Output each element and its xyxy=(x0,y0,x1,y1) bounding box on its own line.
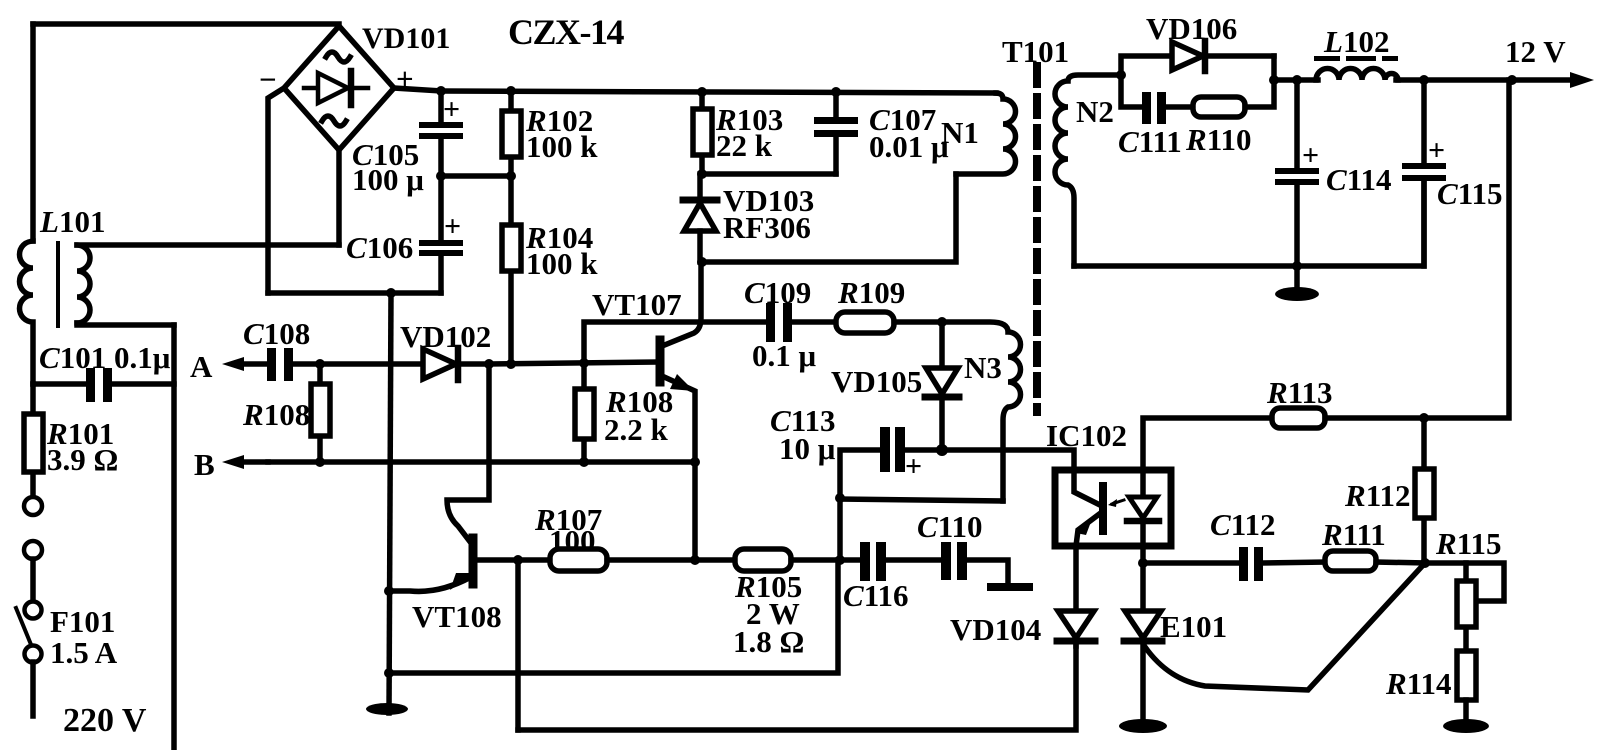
svg-text:VT107: VT107 xyxy=(592,287,682,322)
ground E101 xyxy=(1119,719,1167,733)
wire C111 branch left xyxy=(1121,75,1144,107)
svg-text:R110: R110 xyxy=(1185,122,1251,157)
wire node down to R105 C116 junction xyxy=(837,498,843,560)
node branch output xyxy=(1269,75,1279,85)
svg-text:N3: N3 xyxy=(964,350,1002,385)
label C106 plus xyxy=(444,210,461,243)
svg-text:IC102: IC102 xyxy=(1046,418,1127,453)
svg-text:C106: C106 xyxy=(346,230,413,265)
svg-text:RF306: RF306 xyxy=(723,210,811,245)
svg-text:CZX-14: CZX-14 xyxy=(508,12,624,52)
node VT108 base R107 xyxy=(513,555,523,565)
wire HV rail xyxy=(441,91,996,93)
svg-text:L102: L102 xyxy=(1323,24,1389,59)
capacitor C109 plates xyxy=(766,303,792,342)
label R103 22k xyxy=(715,102,783,163)
label C114 xyxy=(1326,162,1391,197)
wire chassis rail vertical xyxy=(389,293,391,713)
svg-text:N1: N1 xyxy=(941,115,979,150)
transistor VT108 collector xyxy=(447,364,489,543)
ground chassis rail xyxy=(366,703,408,715)
wire bridge AC bottom vertex down xyxy=(336,150,342,245)
wire E101 anode to divider tap xyxy=(1145,563,1425,690)
wire C114 ground stem xyxy=(1294,266,1300,292)
capacitor C114 leads xyxy=(1294,80,1300,266)
resistor R102 leads xyxy=(508,91,514,176)
wire B line xyxy=(268,459,695,465)
label C113 plus xyxy=(905,450,922,483)
svg-text:F101: F101 xyxy=(50,604,115,639)
svg-text:VD104: VD104 xyxy=(950,612,1041,647)
svg-text:R109: R109 xyxy=(837,275,905,310)
wire R109 to N3 VD105 node xyxy=(894,319,942,325)
fuse F101 blade xyxy=(16,608,32,647)
node N2 top VD106 branch xyxy=(1116,70,1126,80)
capacitor C106 leads xyxy=(438,176,444,293)
svg-text:E101: E101 xyxy=(1160,609,1227,644)
node HV rail C107 xyxy=(831,87,841,97)
capacitor C115 leads xyxy=(1421,80,1427,266)
label C105 plus xyxy=(443,93,460,126)
node R113 R112 xyxy=(1419,413,1429,423)
svg-text:0.1 μ: 0.1 μ xyxy=(752,338,817,373)
bridge VD101 AC tilde top xyxy=(326,52,350,62)
capacitor C101 wire xyxy=(33,381,174,387)
svg-text:+: + xyxy=(444,210,461,243)
label VD102 xyxy=(400,319,491,354)
wire C110 to ground stub xyxy=(967,560,1008,583)
label N3 xyxy=(964,350,1002,385)
ground R114 xyxy=(1443,719,1489,733)
label VD101 xyxy=(362,22,450,55)
label R105 2W 1.8ohm xyxy=(733,569,804,659)
svg-text:+: + xyxy=(905,450,922,483)
ground C114 xyxy=(1275,287,1319,301)
svg-text:L101: L101 xyxy=(39,204,105,239)
diode VD103 xyxy=(683,174,717,262)
fuse F101 terminal circle 4 xyxy=(25,646,42,663)
label R108b 2.2k xyxy=(604,384,673,447)
wire C112 to R111 xyxy=(1263,562,1325,563)
node A line R108b C109 branch xyxy=(579,358,589,368)
wire C111 to R110 xyxy=(1166,104,1193,110)
node HV rail C105 xyxy=(436,86,446,96)
label R115 xyxy=(1435,526,1501,561)
wire between switch circles xyxy=(30,559,36,601)
transistor VT107 emitter xyxy=(662,374,695,560)
capacitor C105 leads xyxy=(438,91,444,176)
wire bridge plus to HV rail xyxy=(394,88,441,91)
label plus terminal xyxy=(396,61,414,96)
wire R114 to ground xyxy=(1463,700,1469,719)
resistor R102 body xyxy=(502,111,521,157)
bridge VD101 inner diode xyxy=(304,71,368,105)
label L101 xyxy=(39,204,105,239)
wire R105 to C116 xyxy=(791,557,860,563)
node A line R108a top xyxy=(315,359,325,369)
node C115 top xyxy=(1419,75,1429,85)
capacitor C106 plates xyxy=(419,240,463,256)
svg-text:R108: R108 xyxy=(242,397,310,432)
capacitor C114 plates xyxy=(1275,168,1319,185)
node A line VT108 collector xyxy=(484,359,494,369)
svg-text:100 μ: 100 μ xyxy=(352,162,424,197)
wire base node to R107 xyxy=(518,557,550,563)
resistor R115 leads xyxy=(1463,563,1469,651)
ground C110 bar xyxy=(987,583,1033,591)
svg-text:N2: N2 xyxy=(1076,94,1114,129)
resistor R108a leads xyxy=(317,364,323,462)
label R101 3.9ohm xyxy=(46,416,118,477)
resistor R105 body xyxy=(735,549,791,571)
resistor R109 body xyxy=(836,312,894,333)
wire IC102 led cathode to E101 xyxy=(1140,546,1146,609)
wire fuse to bottom xyxy=(30,662,36,716)
label L102 xyxy=(1323,24,1389,59)
svg-text:C101 0.1μ: C101 0.1μ xyxy=(39,340,171,375)
capacitor C110 plates xyxy=(941,542,967,580)
diode VD104 zener xyxy=(1057,611,1095,646)
svg-text:100: 100 xyxy=(549,523,596,558)
label C110 xyxy=(917,509,982,544)
transistor VT108 base bar xyxy=(469,538,478,584)
label R102 100k xyxy=(525,103,598,164)
inductor L102 xyxy=(1316,69,1398,81)
svg-text:B: B xyxy=(194,447,215,482)
label C105 100u xyxy=(352,137,424,197)
label C106 xyxy=(346,230,413,265)
wire left mains rail upper xyxy=(30,24,36,241)
optocoupler IC102 led xyxy=(1127,470,1159,546)
label C109 0.1u xyxy=(744,275,817,373)
label A xyxy=(190,349,213,384)
resistor R115 body xyxy=(1457,581,1476,627)
svg-text:1.5 A: 1.5 A xyxy=(50,635,118,670)
node E101 C112 xyxy=(1138,558,1148,568)
capacitor C107 leads xyxy=(833,92,839,174)
node A terminal arrow xyxy=(222,357,268,371)
node negative rail to chassis rail xyxy=(386,288,396,298)
label VD106 xyxy=(1146,11,1237,46)
node HV rail R102 xyxy=(506,86,516,96)
svg-text:VD102: VD102 xyxy=(400,319,491,354)
label C114 plus xyxy=(1302,139,1319,172)
label N2 xyxy=(1076,94,1114,129)
resistor R103 leads xyxy=(699,92,705,174)
diode VD105 xyxy=(925,322,959,449)
inductor L101 right winding xyxy=(77,245,90,323)
svg-text:0.01 μ: 0.01 μ xyxy=(869,129,949,164)
node midpoint right xyxy=(506,171,516,181)
node chassis rail bottom wire xyxy=(384,668,394,678)
label R112 xyxy=(1344,478,1410,513)
wire A line VD102 to VT107 base xyxy=(489,362,656,364)
node emitter VT107 joins R107 R105 wire xyxy=(690,555,700,565)
wire IC102 emitter to VD104 xyxy=(1073,546,1079,609)
node chassis rail VT108 emitter xyxy=(384,586,394,596)
wire VD106 branch top xyxy=(1121,56,1173,75)
rheostat R115 wiper loop xyxy=(1425,563,1504,601)
svg-text:A: A xyxy=(190,349,213,384)
svg-text:1.8 Ω: 1.8 Ω xyxy=(733,624,804,659)
resistor R101 body xyxy=(24,414,43,472)
transistor VT108 base lead xyxy=(477,557,518,563)
svg-text:+: + xyxy=(1428,134,1445,167)
svg-text:+: + xyxy=(443,93,460,126)
label C107 0.01u xyxy=(869,102,949,164)
label minus terminal xyxy=(259,62,277,97)
wire C113 left to lower node xyxy=(840,450,880,498)
wire L102 to 12V arrow xyxy=(1396,77,1570,83)
capacitor C112 plates xyxy=(1239,547,1263,581)
transformer T101 dashed core line xyxy=(1033,66,1041,412)
capacitor C111 plates xyxy=(1142,92,1166,124)
resistor R110 body xyxy=(1193,97,1245,117)
wire 12V rail xyxy=(1274,77,1318,83)
capacitor C116 plates xyxy=(860,542,886,581)
resistor R108b body xyxy=(575,389,594,439)
label R114 xyxy=(1385,666,1451,701)
inductor L101 core xyxy=(56,243,60,326)
svg-text:R112: R112 xyxy=(1344,478,1410,513)
node HV rail R103 xyxy=(697,87,707,97)
bridge rectifier VD101 diamond xyxy=(284,26,394,150)
label C115 plus xyxy=(1428,134,1445,167)
resistor R103 body xyxy=(693,109,712,155)
transformer T101 winding N1 xyxy=(956,93,1016,174)
svg-text:220 V: 220 V xyxy=(63,702,147,739)
label B xyxy=(194,447,215,482)
node B line VT107 emitter xyxy=(690,457,700,467)
svg-text:VD101: VD101 xyxy=(362,22,450,55)
label E101 xyxy=(1160,609,1227,644)
svg-text:R114: R114 xyxy=(1385,666,1451,701)
resistor R101 leads xyxy=(30,384,36,497)
node C114 bottom xyxy=(1292,261,1302,271)
wire R110 to branch right xyxy=(1245,56,1274,107)
diode VD106 xyxy=(1172,41,1274,71)
label R107 100 xyxy=(534,502,602,558)
wire C109 to R109 xyxy=(792,319,836,325)
svg-text:C114: C114 xyxy=(1326,162,1391,197)
resistor R108b leads xyxy=(581,363,587,462)
svg-text:R111: R111 xyxy=(1321,517,1386,552)
wire N3 bottom to node xyxy=(840,499,1003,501)
label R104 100k xyxy=(525,220,598,281)
transformer T101 winding N2 xyxy=(1055,75,1121,266)
node R105 C116 junction xyxy=(835,555,845,565)
wire L101 right winding bottom to right mains rail xyxy=(77,323,174,325)
label VD105 xyxy=(831,364,922,399)
capacitor C115 plates xyxy=(1402,163,1446,181)
wire negative rail horizontal xyxy=(268,290,441,296)
label C101 0.1u xyxy=(39,340,171,375)
transistor VT107 collector xyxy=(662,262,701,346)
label F101 1.5A xyxy=(50,604,118,670)
node R109 N3 VD105 xyxy=(937,317,947,327)
node midpoint left xyxy=(436,171,446,181)
optocoupler IC102 box xyxy=(1055,470,1171,546)
svg-text:C108: C108 xyxy=(243,316,310,351)
wire R113 line from IC102 led anode xyxy=(1143,418,1272,470)
transformer T101 winding N3 xyxy=(942,322,1021,501)
label 12 V xyxy=(1505,34,1566,69)
node VD103 anode junction xyxy=(697,257,707,267)
label R108a xyxy=(242,397,310,432)
wire VT108 base down xyxy=(515,560,521,730)
wire C109 branch from base node xyxy=(584,322,768,363)
svg-text:VD106: VD106 xyxy=(1146,11,1237,46)
wire C116 to C110 xyxy=(886,557,941,563)
label 220 V xyxy=(63,702,147,739)
wire bottom long to VD104 xyxy=(518,646,1076,730)
wire R113 to 12V branch xyxy=(1325,80,1509,418)
resistor R104 leads xyxy=(508,176,514,364)
label VT107 xyxy=(592,287,682,322)
label R113 xyxy=(1266,375,1332,410)
label N1 xyxy=(941,115,979,150)
switch terminal circle 1 xyxy=(24,497,42,515)
wire C113 right to VD105 node to IC102 xyxy=(905,450,1074,470)
svg-text:R115: R115 xyxy=(1435,526,1501,561)
label T101 xyxy=(1002,34,1069,69)
resistor R111 body xyxy=(1325,551,1376,571)
label R110 xyxy=(1185,122,1251,157)
wire A line C108 to VD102 xyxy=(293,361,423,367)
label R109 xyxy=(837,275,905,310)
wire R111 to tap node xyxy=(1376,562,1425,563)
wire mains top from left rail to bridge AC top xyxy=(33,21,339,27)
wire C112 line xyxy=(1143,560,1241,566)
svg-text:R113: R113 xyxy=(1266,375,1332,410)
resistor R114 body xyxy=(1457,651,1476,700)
resistor R112 body xyxy=(1415,469,1434,518)
svg-text:C111: C111 xyxy=(1118,124,1182,159)
wire R107 to R105 xyxy=(607,557,735,563)
svg-text:12 V: 12 V xyxy=(1505,34,1566,69)
label IC102 xyxy=(1046,418,1127,453)
svg-text:100 k: 100 k xyxy=(526,129,598,164)
wire C105 C106 midpoint to R102 R104 midpoint xyxy=(441,173,511,179)
capacitor C101 plates xyxy=(86,368,112,402)
wire bottom return rail to R105 junction xyxy=(389,560,838,673)
wire N2 bottom return xyxy=(1074,181,1424,266)
node B line R108a bottom xyxy=(315,457,325,467)
capacitor C105 plates xyxy=(419,122,463,139)
node C114 top xyxy=(1292,75,1302,85)
resistor R104 body xyxy=(502,225,521,271)
label CZX-14 xyxy=(508,12,624,52)
wire N1 bottom to VD103 anode xyxy=(702,174,956,262)
label L102 underline dashes xyxy=(1314,56,1398,61)
wire right mains rail xyxy=(171,325,177,748)
label R111 xyxy=(1321,517,1386,552)
svg-text:C112: C112 xyxy=(1210,507,1275,542)
capacitor C108 plates xyxy=(267,348,293,381)
label C112 xyxy=(1210,507,1275,542)
svg-text:100 k: 100 k xyxy=(526,246,598,281)
node B terminal arrow xyxy=(222,455,268,469)
label VT108 xyxy=(412,599,502,634)
wire R103 bottom to C107 bottom xyxy=(702,171,836,177)
svg-text:C115: C115 xyxy=(1437,176,1502,211)
svg-text:10 μ: 10 μ xyxy=(779,431,836,466)
switch terminal circle 2 xyxy=(24,541,42,559)
node VD105 C113 xyxy=(936,444,948,456)
svg-text:2.2 k: 2.2 k xyxy=(604,412,669,447)
svg-text:22 k: 22 k xyxy=(716,128,773,163)
node 12V R113 branch xyxy=(1507,75,1517,85)
transistor VT107 base bar xyxy=(656,340,665,382)
wire L101 right winding top to bridge AC bottom xyxy=(77,242,339,248)
label C111 xyxy=(1118,124,1182,159)
svg-text:VT108: VT108 xyxy=(412,599,502,634)
optocoupler IC102 light arrows xyxy=(1108,499,1124,507)
bridge VD101 AC tilde bottom xyxy=(322,116,346,126)
inductor L101 left winding xyxy=(20,241,34,384)
transistor VT108 emitter xyxy=(389,573,475,591)
svg-text:3.9 Ω: 3.9 Ω xyxy=(47,442,118,477)
fuse F101 terminal circle 3 xyxy=(25,602,42,619)
wire bridge minus to negative rail xyxy=(268,88,284,293)
resistor R108a body xyxy=(311,384,330,436)
label C108 xyxy=(243,316,310,351)
resistor R112 leads xyxy=(1421,418,1427,563)
resistor R107 body xyxy=(550,549,607,571)
capacitor C113 plates xyxy=(880,427,905,472)
svg-text:C110: C110 xyxy=(917,509,982,544)
svg-text:C109: C109 xyxy=(744,275,811,310)
node divider tap xyxy=(1420,558,1430,568)
svg-text:VD105: VD105 xyxy=(831,364,922,399)
label VD104 xyxy=(950,612,1041,647)
svg-text:T101: T101 xyxy=(1002,34,1069,69)
label VD103 RF306 xyxy=(723,183,814,245)
diode VD102 xyxy=(423,348,489,380)
label C116 xyxy=(843,578,908,613)
node A line R104 bottom xyxy=(506,359,516,369)
node B line R108b bottom xyxy=(579,457,589,467)
node 12V output arrow xyxy=(1570,72,1594,88)
label C115 xyxy=(1437,176,1502,211)
resistor R113 body xyxy=(1272,408,1325,428)
svg-text:C116: C116 xyxy=(843,578,908,613)
label C113 10u xyxy=(770,403,836,466)
diode E101 reference xyxy=(1124,611,1162,719)
capacitor C107 plates xyxy=(814,117,858,137)
optocoupler IC102 phototransistor xyxy=(1074,470,1103,546)
svg-text:+: + xyxy=(1302,139,1319,172)
node C113 N3 R105 junction xyxy=(835,493,845,503)
node R103 VD103 xyxy=(697,169,707,179)
